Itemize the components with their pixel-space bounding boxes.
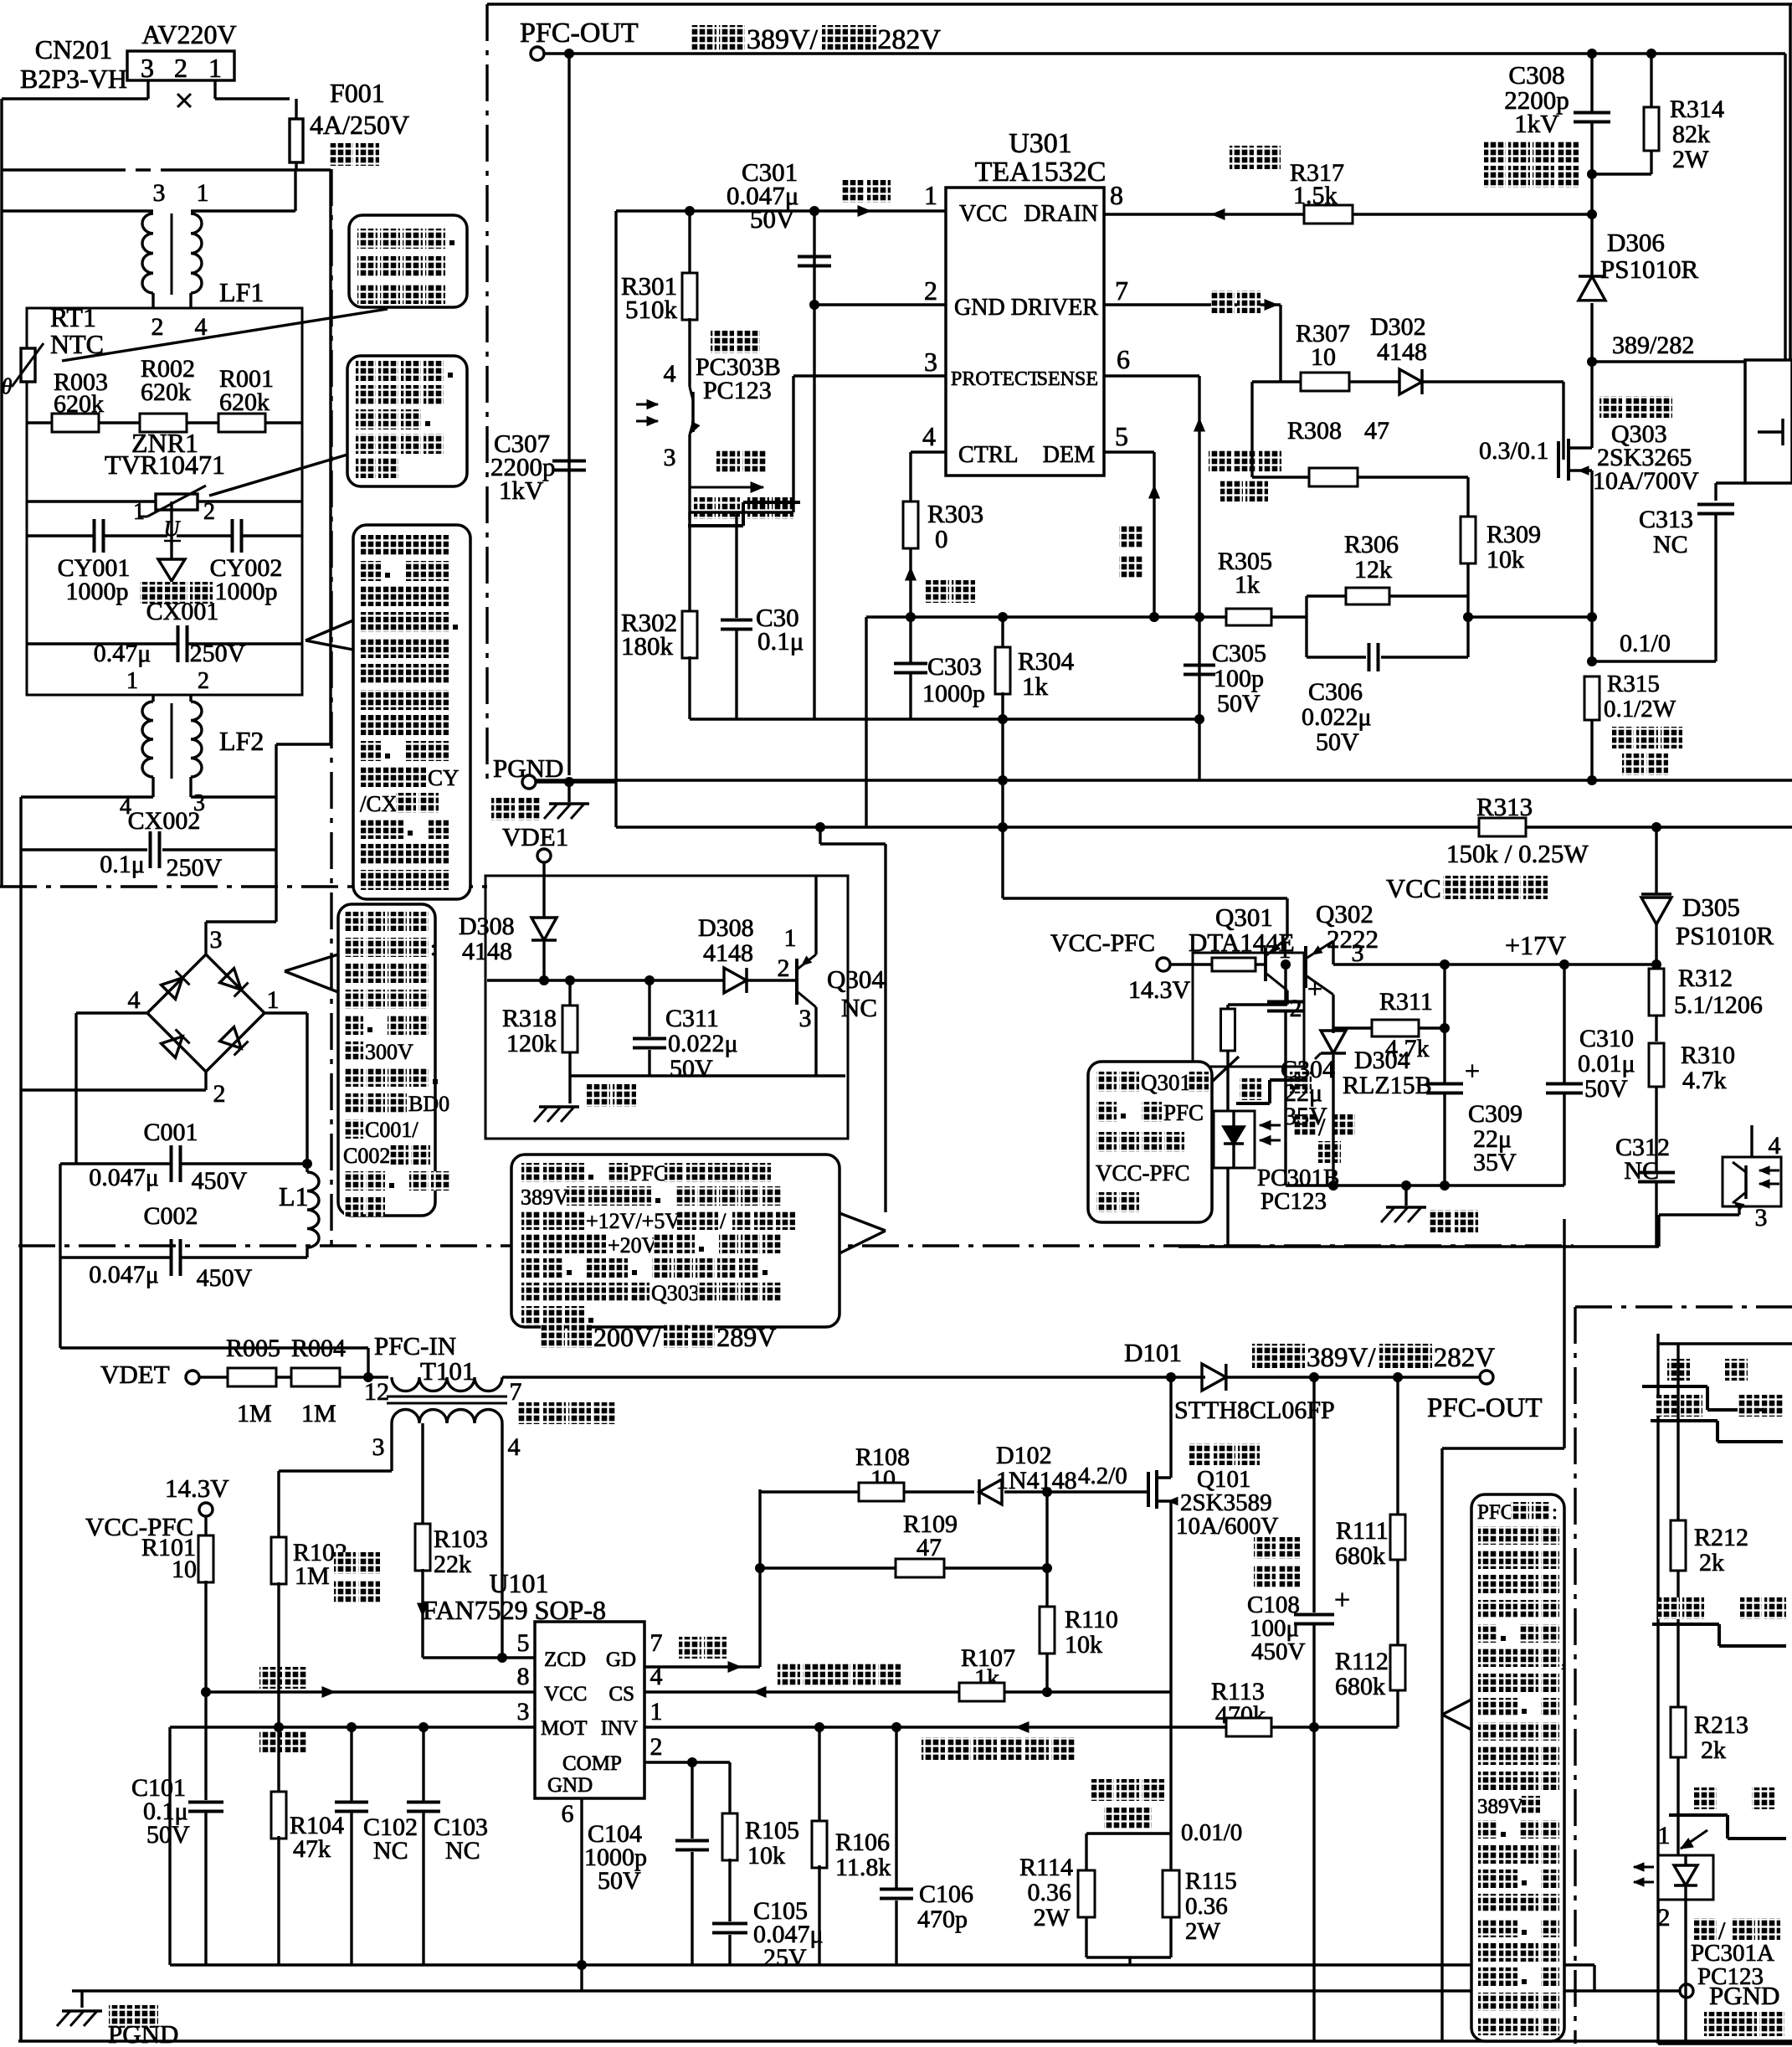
svg-text:389V: 389V <box>521 1186 569 1210</box>
fuse F001 4A/250V <box>295 99 297 119</box>
wire R308 branch <box>1250 382 1253 477</box>
svg-text:,: , <box>1561 1648 1566 1671</box>
wire DEM pin5 <box>1104 450 1154 453</box>
wire step from box bottom to callout <box>819 827 821 844</box>
svg-text:10A/700V: 10A/700V <box>1593 467 1699 495</box>
svg-text:1: 1 <box>650 1698 663 1726</box>
svg-text:3: 3 <box>799 1005 812 1032</box>
capacitor CX001 0.47u 250V <box>27 642 177 645</box>
svg-text:1k: 1k <box>1022 671 1049 701</box>
svg-text:3: 3 <box>1755 1204 1768 1232</box>
svg-text:C313: C313 <box>1639 506 1693 533</box>
label 开机389V/待机282V <box>691 25 716 50</box>
svg-text:11.8k: 11.8k <box>835 1854 891 1881</box>
svg-text:250V: 250V <box>190 640 246 667</box>
svg-text:R312: R312 <box>1678 964 1733 992</box>
wire bridge pin1 <box>264 1011 307 1014</box>
svg-text:50V: 50V <box>1316 728 1359 756</box>
svg-text:L1: L1 <box>279 1181 309 1211</box>
pointer line callout to ZNR1 <box>209 455 347 496</box>
wire rail down right edge <box>1784 54 1786 360</box>
chain line horizontal y=1561 right section boundary <box>1575 1305 1792 1308</box>
svg-text:300V: 300V <box>365 1040 413 1064</box>
wire Q301 out to opto PC301B <box>1226 1067 1229 1111</box>
svg-text:0.1μ: 0.1μ <box>100 851 145 878</box>
svg-text:DEM: DEM <box>1043 442 1095 468</box>
svg-text:35V: 35V <box>1284 1103 1327 1130</box>
svg-text:4A/250V: 4A/250V <box>310 110 409 140</box>
ground hot PGND bottom left <box>109 2005 132 2028</box>
svg-text:2: 2 <box>174 53 187 83</box>
svg-text:22k: 22k <box>434 1551 471 1578</box>
hot ground rail y=932 <box>536 779 1792 781</box>
waveform 开关 step 3 <box>1694 1787 1717 1809</box>
svg-text:GND: GND <box>954 295 1005 321</box>
svg-text:50V: 50V <box>598 1867 641 1895</box>
svg-text:150k / 0.25W: 150k / 0.25W <box>1446 839 1589 868</box>
svg-text:PROTECT: PROTECT <box>951 368 1040 390</box>
svg-text:PFC: PFC <box>629 1161 668 1186</box>
wire bottom row of sub circuit <box>570 1074 845 1077</box>
svg-text:+: + <box>1334 1585 1350 1616</box>
svg-text:2: 2 <box>213 1080 226 1108</box>
svg-text:+: + <box>1465 1056 1480 1086</box>
terminal PFC-OUT bottom <box>1480 1371 1493 1384</box>
svg-text:Q301: Q301 <box>1141 1070 1191 1095</box>
svg-text:282V: 282V <box>877 24 941 55</box>
svg-text:PC123: PC123 <box>1697 1963 1764 1990</box>
svg-text:D308: D308 <box>459 913 515 940</box>
wire PFC-OUT down x=680 <box>567 54 570 775</box>
svg-text:8: 8 <box>1110 180 1123 210</box>
svg-text:82k: 82k <box>1672 121 1710 148</box>
wire DRAIN pin8 startup row <box>1104 213 1304 215</box>
svg-text:2: 2 <box>203 499 215 525</box>
wire bridge pin2 to frame <box>204 1072 207 1090</box>
svg-text:1N4148: 1N4148 <box>996 1467 1077 1494</box>
svg-text:389V: 389V <box>1477 1796 1524 1818</box>
svg-text:4: 4 <box>508 1433 521 1461</box>
svg-text:4: 4 <box>664 360 676 388</box>
svg-text:12k: 12k <box>1354 556 1392 584</box>
svg-text:10: 10 <box>172 1556 197 1583</box>
svg-text:C305: C305 <box>1212 640 1266 667</box>
wire INV row <box>644 1726 1398 1728</box>
svg-text:5.1/1206: 5.1/1206 <box>1674 991 1763 1019</box>
wire PFC-OUT up jog <box>1563 1219 1565 1448</box>
svg-text:VCC: VCC <box>544 1683 587 1705</box>
svg-text:10: 10 <box>1311 343 1336 371</box>
svg-text:CN201: CN201 <box>35 34 112 64</box>
svg-text:4148: 4148 <box>462 938 512 965</box>
svg-text:1000p: 1000p <box>215 578 278 605</box>
chain line vertical x=582 <box>485 4 488 787</box>
svg-text:2W: 2W <box>1672 146 1709 173</box>
svg-text:R112: R112 <box>1335 1648 1389 1675</box>
svg-text:NC: NC <box>841 993 877 1022</box>
svg-text:8: 8 <box>517 1663 530 1690</box>
svg-text:10A/600V: 10A/600V <box>1176 1513 1279 1540</box>
wire opto emitter pin3 <box>688 435 691 520</box>
svg-text:0.047μ: 0.047μ <box>89 1261 159 1288</box>
callout varistor note 压敏电阻 <box>347 356 467 486</box>
svg-text:3: 3 <box>924 347 937 377</box>
label 保护 protect arrow <box>716 450 740 472</box>
wire DRIVER pin7 row <box>1104 303 1281 306</box>
waveform 正常保护 step 2 <box>1658 1597 1680 1619</box>
chain line horizontal y=1488 PFC section boundary <box>18 1244 1574 1247</box>
svg-text:PS1010R: PS1010R <box>1600 255 1698 284</box>
label 稳压 <box>926 580 949 603</box>
callout main power note 主电源 <box>511 1155 840 1327</box>
svg-text:1: 1 <box>267 986 280 1014</box>
wire COMP row <box>644 1761 730 1763</box>
svg-text:C303: C303 <box>927 653 982 681</box>
wire protect column <box>1676 1344 1679 1520</box>
wire gnd row y=859 <box>690 717 1199 720</box>
wire CN201 pin1 <box>213 80 216 99</box>
capacitor CY002 1000p <box>177 534 234 537</box>
label 开机200V/关机289V <box>541 1324 565 1348</box>
svg-text:1000p: 1000p <box>66 578 129 605</box>
svg-text:DRAIN: DRAIN <box>1024 201 1098 227</box>
svg-text:10k: 10k <box>747 1842 785 1870</box>
svg-text:180k: 180k <box>621 631 674 661</box>
wire GND pin2 row <box>814 303 946 306</box>
callout VCC-PFC note 开机Q301导通 <box>1088 1062 1212 1222</box>
wire GND pin6 <box>580 1798 583 1965</box>
ground hot VCC circuit <box>1401 1180 1411 1191</box>
svg-text:4.7k: 4.7k <box>1682 1067 1727 1094</box>
capacitor CY001 1000p <box>27 534 95 537</box>
pointer line callout to RT1 <box>62 309 388 361</box>
svg-text:NC: NC <box>445 1837 480 1864</box>
svg-text:50V: 50V <box>1584 1075 1628 1103</box>
svg-text:2k: 2k <box>1699 1549 1724 1576</box>
svg-text:35V: 35V <box>1473 1149 1517 1176</box>
line-filter transformer LF1 <box>2 209 153 212</box>
svg-text:U101: U101 <box>489 1568 548 1598</box>
svg-text:120k: 120k <box>506 1030 557 1057</box>
svg-text:4.7k: 4.7k <box>1385 1035 1430 1062</box>
svg-text:1M: 1M <box>295 1562 330 1590</box>
svg-text:50V: 50V <box>146 1821 190 1849</box>
svg-text:+17V: +17V <box>1505 930 1566 960</box>
label 启动 start <box>1230 146 1254 169</box>
svg-text:+20V: +20V <box>608 1233 658 1258</box>
svg-text:1: 1 <box>1279 936 1291 964</box>
svg-text:R212: R212 <box>1694 1524 1748 1551</box>
optocoupler PC303B PC123 photo-transistor <box>711 331 734 353</box>
svg-text:C306: C306 <box>1308 678 1363 706</box>
svg-text:R306: R306 <box>1344 531 1399 558</box>
wire ZCD row <box>423 1656 535 1659</box>
svg-text:1: 1 <box>133 499 145 525</box>
wire base row <box>487 979 725 981</box>
wire AC rail y=203 <box>2 168 126 171</box>
svg-text:4148: 4148 <box>1377 338 1427 366</box>
svg-text:0.022μ: 0.022μ <box>668 1030 738 1057</box>
svg-text:3: 3 <box>372 1433 385 1461</box>
PFC bottom frame <box>18 2039 1792 2042</box>
svg-text:6: 6 <box>1117 344 1130 374</box>
svg-text:14.3V: 14.3V <box>165 1474 229 1503</box>
svg-text:4: 4 <box>1769 1132 1781 1160</box>
label 激励 drive <box>1211 291 1235 313</box>
svg-text:0.1μ: 0.1μ <box>757 626 804 656</box>
svg-text:3: 3 <box>1352 939 1364 967</box>
svg-text:100p: 100p <box>1214 665 1264 692</box>
svg-text:0.3/0.1: 0.3/0.1 <box>1479 437 1548 465</box>
svg-text:R310: R310 <box>1681 1042 1735 1069</box>
svg-text:D302: D302 <box>1370 313 1426 341</box>
svg-text:+12V/+5V: +12V/+5V <box>586 1209 680 1233</box>
svg-text:R114: R114 <box>1019 1854 1073 1881</box>
svg-text:7: 7 <box>1115 275 1128 306</box>
svg-text:0: 0 <box>935 524 948 553</box>
svg-text:PGND: PGND <box>108 2019 178 2047</box>
waveform 开关 step 1 <box>1667 1359 1690 1381</box>
svg-text:1M: 1M <box>301 1400 336 1427</box>
svg-text:DRIVER: DRIVER <box>1011 295 1099 321</box>
svg-text:0.047μ: 0.047μ <box>89 1164 159 1191</box>
wire PROTECT pin3 row <box>793 374 946 377</box>
svg-text:VCC: VCC <box>959 201 1008 227</box>
wire 389/282 row to transformer <box>1592 360 1745 363</box>
svg-text:PC123: PC123 <box>703 377 772 404</box>
svg-text:3: 3 <box>153 179 166 207</box>
svg-text:3: 3 <box>517 1698 530 1726</box>
svg-text:7: 7 <box>650 1629 663 1657</box>
svg-text:MOT: MOT <box>541 1717 588 1740</box>
svg-text:250V: 250V <box>167 854 223 882</box>
svg-text:620k: 620k <box>141 378 191 406</box>
svg-text:47k: 47k <box>293 1835 331 1863</box>
svg-text:D306: D306 <box>1607 228 1665 257</box>
callout mains rectifier note 市电整流滤波电路 <box>338 904 435 1216</box>
svg-text:GD: GD <box>606 1648 636 1671</box>
svg-text:R314: R314 <box>1670 95 1724 123</box>
wire sense feedback to source <box>1466 596 1469 657</box>
wire CN201 pin3 <box>146 80 149 99</box>
wire driver to gate <box>1279 305 1281 382</box>
svg-text:0.36: 0.36 <box>1185 1893 1228 1920</box>
bridge rectifier BD <box>147 954 206 1013</box>
wire T101 pin4 to ZCD <box>501 1423 503 1658</box>
wire right frame x=1723 <box>1440 1448 1443 2041</box>
wire opto pin3 to rail <box>1226 1168 1229 1247</box>
svg-text:10k: 10k <box>1065 1631 1102 1659</box>
chain line vertical x=1882 right section boundary <box>1574 1307 1576 2044</box>
label 保护执 <box>1704 2012 1729 2036</box>
svg-text:450V: 450V <box>192 1167 248 1195</box>
svg-text:R318: R318 <box>502 1005 557 1032</box>
svg-text:2: 2 <box>151 313 164 341</box>
svg-text:VDE1: VDE1 <box>502 822 568 851</box>
svg-text:PFC: PFC <box>1163 1100 1204 1125</box>
svg-text::: : <box>1552 1501 1558 1524</box>
svg-text:R004: R004 <box>291 1335 346 1362</box>
svg-text:R110: R110 <box>1065 1606 1118 1633</box>
wire left frame x=2 <box>0 99 3 887</box>
svg-text:PS1010R: PS1010R <box>1676 921 1774 950</box>
current sample loop R114 R115 过电流取样 <box>1091 1779 1114 1801</box>
feedback row y=737 <box>866 615 1227 618</box>
svg-text:R005: R005 <box>226 1335 280 1362</box>
svg-text:CY: CY <box>428 765 460 790</box>
chain line vertical x=396 <box>330 169 332 1246</box>
svg-text:BD0: BD0 <box>408 1092 449 1116</box>
svg-text:1: 1 <box>208 53 222 83</box>
svg-text:450V: 450V <box>197 1264 253 1292</box>
line-filter transformer LF2 <box>151 695 154 702</box>
VCC circuit lower return rail <box>1178 1245 1659 1247</box>
main power section box left edge <box>614 211 617 827</box>
svg-text:4: 4 <box>128 986 141 1014</box>
transistor Q304 NC <box>795 959 798 1005</box>
svg-text:47: 47 <box>1364 417 1389 445</box>
svg-text:4.2/0: 4.2/0 <box>1078 1463 1127 1489</box>
svg-text:2W: 2W <box>1034 1904 1071 1931</box>
wire SENSE pin6 <box>1104 374 1199 377</box>
svg-text:0.01/0: 0.01/0 <box>1181 1819 1242 1846</box>
svg-text:2k: 2k <box>1701 1736 1726 1764</box>
svg-text:4: 4 <box>922 421 936 451</box>
waveform 正常/保护 step <box>694 497 716 519</box>
terminal PGND bottom right <box>1680 1984 1693 1998</box>
svg-text:0.1/0: 0.1/0 <box>1620 630 1671 657</box>
sub circuit box VDE1 Q304 <box>485 876 848 1139</box>
svg-text::: : <box>430 936 436 960</box>
svg-text:0.1/2W: 0.1/2W <box>1604 696 1676 723</box>
svg-text:AV220V: AV220V <box>141 19 236 49</box>
svg-text:R105: R105 <box>745 1817 799 1844</box>
svg-text:LF2: LF2 <box>219 726 264 756</box>
wire VCC row right CS <box>644 1690 1171 1693</box>
svg-text:389/282: 389/282 <box>1612 332 1694 359</box>
svg-text:NC: NC <box>373 1837 408 1864</box>
svg-text:VCC-PFC: VCC-PFC <box>1050 929 1155 957</box>
svg-text:θ: θ <box>2 374 13 399</box>
wire top rail to C308 column <box>1590 54 1593 112</box>
svg-text:D101: D101 <box>1124 1338 1182 1367</box>
svg-text:50V: 50V <box>1217 690 1261 717</box>
svg-text:1M: 1M <box>237 1400 272 1427</box>
svg-text:450V: 450V <box>1251 1638 1306 1665</box>
wire +17V row <box>1333 963 1656 965</box>
svg-text:200V/: 200V/ <box>593 1322 660 1352</box>
svg-text:Q304: Q304 <box>827 964 885 994</box>
wire VCC pin1 row <box>616 209 946 212</box>
svg-text:5: 5 <box>1115 421 1128 451</box>
svg-text:3: 3 <box>664 444 676 471</box>
MOSFET Q101 2SK3589 switch tube <box>1147 1472 1150 1507</box>
svg-text:50V: 50V <box>750 204 795 234</box>
svg-text:2: 2 <box>778 954 790 982</box>
wire hot ground rail A <box>170 1963 1594 1966</box>
svg-text:C002: C002 <box>143 1202 198 1230</box>
wire hot ground rail B <box>72 1989 1680 1992</box>
svg-text:R115: R115 <box>1185 1868 1237 1895</box>
chain line horizontal y=1059 <box>0 885 487 887</box>
svg-text:2W: 2W <box>1185 1918 1221 1945</box>
svg-text:PFC: PFC <box>1477 1501 1514 1524</box>
label 补偿 <box>259 1731 282 1752</box>
wire C002 down to PFC-IN rail <box>59 1258 61 1348</box>
label 开机389V/待机282V right <box>1252 1344 1277 1368</box>
svg-text:C106: C106 <box>919 1880 973 1908</box>
svg-text:INV: INV <box>601 1717 638 1740</box>
svg-text:D308: D308 <box>698 914 754 942</box>
callout EMI filter note 抗干扰电路 <box>353 525 470 899</box>
svg-text:289V: 289V <box>716 1322 776 1352</box>
EMI filter box <box>27 308 302 695</box>
svg-text:R103: R103 <box>434 1525 488 1553</box>
svg-text:389V/: 389V/ <box>1307 1343 1376 1373</box>
optocoupler PC301B PC123 LED side <box>1214 1111 1255 1168</box>
wire MOT row <box>170 1726 535 1728</box>
svg-text:680k: 680k <box>1335 1673 1385 1700</box>
svg-text:R309: R309 <box>1486 521 1541 548</box>
optocoupler PC301A PC123 LED side <box>1658 1855 1713 1900</box>
svg-text:B2P3-VH: B2P3-VH <box>20 64 127 94</box>
svg-text:680k: 680k <box>1335 1542 1385 1570</box>
svg-text:1: 1 <box>924 180 937 210</box>
svg-text:SENSE: SENSE <box>1037 368 1098 390</box>
svg-text:Q303: Q303 <box>651 1281 700 1305</box>
main power section bottom rail / R313 rail <box>616 825 1792 828</box>
wire left frame x=25 <box>19 797 22 2041</box>
callout PFC circuit note PFC电路 <box>1471 1494 1564 2041</box>
svg-text:CTRL: CTRL <box>958 442 1019 468</box>
svg-text:2: 2 <box>924 275 937 306</box>
svg-text:U301: U301 <box>1009 128 1072 159</box>
svg-text:1: 1 <box>1658 1822 1671 1849</box>
svg-text:GND: GND <box>547 1774 593 1797</box>
svg-text:D305: D305 <box>1682 892 1740 922</box>
svg-text:1: 1 <box>197 179 209 207</box>
VCC circuit ground rail <box>1286 1184 1564 1186</box>
MOSFET Q303 2SK3265 switch tube <box>1562 382 1564 460</box>
svg-text:12: 12 <box>364 1378 389 1406</box>
svg-text:RT1: RT1 <box>50 302 96 332</box>
wire right AC line x=395 down <box>329 170 331 744</box>
svg-text:C002: C002 <box>343 1144 390 1168</box>
svg-text:STTH8CL06FP: STTH8CL06FP <box>1174 1396 1335 1424</box>
svg-text:389V/: 389V/ <box>747 24 819 55</box>
svg-text:282V: 282V <box>1434 1343 1496 1373</box>
svg-text:0.47μ: 0.47μ <box>94 640 151 667</box>
svg-text:47: 47 <box>917 1534 942 1561</box>
wire top rail 389V <box>544 52 1785 54</box>
svg-text:PC123: PC123 <box>1261 1188 1327 1215</box>
wire x=330 down to bridge <box>275 744 277 797</box>
wire protect net <box>690 511 793 513</box>
svg-text:VCC-PFC: VCC-PFC <box>1096 1160 1190 1186</box>
svg-text:F001: F001 <box>330 78 385 108</box>
svg-text:50V: 50V <box>670 1055 713 1083</box>
wire GD row 激励 <box>679 1637 701 1659</box>
svg-text:C001: C001 <box>143 1119 198 1146</box>
svg-text:D102: D102 <box>996 1442 1052 1469</box>
ground hot VDE1 circuit <box>587 1084 610 1107</box>
waveform 开/关 step <box>1240 1078 1261 1100</box>
svg-text:PFC-OUT: PFC-OUT <box>520 18 639 49</box>
svg-text:CS: CS <box>608 1683 634 1705</box>
svg-text:RLZ15B: RLZ15B <box>1343 1072 1432 1099</box>
transformer T primary partial at right edge <box>1745 360 1792 483</box>
svg-text:6: 6 <box>562 1800 574 1828</box>
